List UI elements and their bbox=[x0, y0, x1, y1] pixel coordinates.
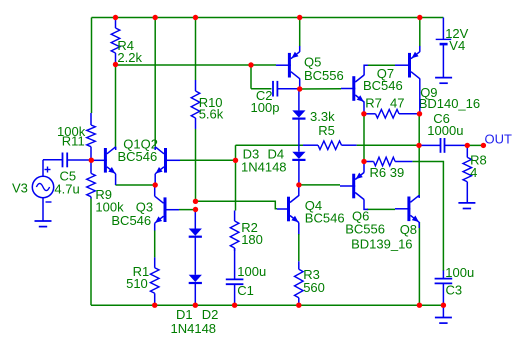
junction rail Q5 emitter bbox=[297, 15, 302, 20]
node OUT port bbox=[481, 143, 486, 148]
svg-text:510: 510 bbox=[126, 276, 148, 291]
wire Q4 emitter to R3 bbox=[298, 234, 300, 261]
svg-text:5.6k: 5.6k bbox=[199, 107, 224, 122]
junction bias node lower bbox=[193, 207, 198, 212]
resistor R7 bbox=[364, 110, 420, 119]
wire Q4 collector pin bbox=[298, 185, 300, 196]
wire C3 top pin bbox=[442, 271, 444, 279]
wire Q7 emitter pin bbox=[363, 102, 365, 114]
svg-text:V4: V4 bbox=[449, 38, 465, 53]
wire Q2 collector pin bbox=[154, 147, 156, 150]
svg-text:BD140_16: BD140_16 bbox=[419, 96, 480, 111]
wire R4 bottom to Q5 base bbox=[116, 64, 277, 66]
diode D1 bbox=[171, 229, 219, 337]
transistor Q8 bbox=[351, 195, 419, 251]
junction rail Q9 emitter bbox=[417, 15, 422, 20]
wire left border / R11 top feed bbox=[91, 18, 93, 114]
wire bias node to Q4 base bbox=[196, 201, 278, 209]
wire rail to R10 bbox=[195, 18, 197, 81]
junction VAS output bbox=[296, 182, 301, 187]
wire Q8 emitter to ground rail bbox=[418, 222, 420, 305]
wire C3 to ground rail bbox=[442, 284, 444, 318]
wire Q5 collector pin bbox=[299, 79, 301, 90]
svg-text:BC556: BC556 bbox=[345, 222, 385, 237]
wire Q8 collector pin bbox=[418, 195, 420, 198]
wire R4 bottom to Q1 collector bbox=[115, 65, 117, 148]
svg-text:100u: 100u bbox=[445, 265, 474, 280]
resistor R6 bbox=[364, 157, 412, 180]
junction rail C3 bbox=[441, 303, 446, 308]
wire Q4 emitter pin bbox=[298, 223, 300, 236]
junction C6 R8 bbox=[465, 143, 470, 148]
wire D1-D2 link bbox=[194, 237, 196, 274]
wire Q3 collector pin bbox=[154, 185, 156, 196]
diode D2 bbox=[189, 275, 202, 283]
wire rail to Q2 collector bbox=[154, 18, 156, 147]
wire Q1 emitter to Q2 emitter bbox=[116, 184, 156, 186]
wire Q7 collector pin bbox=[364, 65, 368, 75]
wire V3 to C5 bbox=[43, 159, 63, 161]
transistor Q4 bbox=[277, 196, 345, 226]
junction rail R4 bbox=[113, 15, 118, 20]
svg-text:Q8: Q8 bbox=[400, 222, 417, 237]
wire C6 to OUT port bbox=[467, 144, 483, 146]
wire Q3 emitter pin bbox=[154, 223, 156, 230]
wire C6 to R8 bbox=[445, 144, 468, 146]
wire feedback node up bbox=[235, 145, 237, 160]
resistor R10 bbox=[191, 80, 224, 129]
resistor R1 bbox=[126, 257, 159, 305]
capacitor C1 bbox=[226, 264, 266, 298]
svg-text:BC546: BC546 bbox=[118, 149, 158, 164]
wire C1 to ground rail bbox=[234, 284, 236, 305]
wire Q8 emitter pin bbox=[418, 222, 420, 228]
wire feedback node down to R2 bbox=[235, 160, 237, 210]
wire rail to Q5 emitter bbox=[299, 18, 301, 47]
wire Q9 collector pin bbox=[419, 79, 421, 114]
capacitor C5 bbox=[54, 153, 79, 197]
junction input node bbox=[89, 158, 94, 163]
junction rail Q8 emitter bbox=[417, 303, 422, 308]
wire D3 to D4 bbox=[298, 119, 300, 152]
transistor Q7 bbox=[341, 66, 404, 111]
wire Q2 emitter pin bbox=[154, 174, 156, 185]
svg-text:3.3k: 3.3k bbox=[310, 109, 335, 124]
svg-text:180: 180 bbox=[241, 232, 263, 247]
junction bias node upper bbox=[193, 199, 198, 204]
wire Q7 collector to Q9 base bbox=[367, 64, 395, 66]
svg-text:39: 39 bbox=[390, 165, 404, 180]
svg-text:R11: R11 bbox=[62, 134, 85, 149]
wire Q3 base bbox=[179, 209, 196, 211]
wire Q5 emitter pin bbox=[299, 46, 301, 52]
wire Q1 collector pin bbox=[115, 147, 117, 150]
wire rail to Q9 emitter bbox=[419, 18, 421, 47]
svg-text:100p: 100p bbox=[251, 100, 280, 115]
svg-text:C3: C3 bbox=[446, 283, 463, 298]
wire C5 to input node bbox=[67, 159, 91, 161]
svg-text:D1: D1 bbox=[176, 307, 193, 322]
wire R7 left to R6 left bbox=[363, 114, 365, 162]
wire D4 to VAS node bbox=[298, 160, 300, 185]
svg-text:BC546: BC546 bbox=[111, 213, 151, 228]
junction Q5 collector / C2 bbox=[297, 86, 302, 91]
ground of C3 bbox=[435, 318, 452, 324]
wire D1 anode bbox=[194, 210, 196, 229]
transistor Q1 bbox=[91, 137, 158, 174]
junction OUT node bbox=[416, 143, 421, 148]
junction rail R3 bbox=[296, 303, 301, 308]
resistor R9 bbox=[87, 160, 124, 214]
capacitor C6 bbox=[427, 111, 463, 153]
wire OUT node to Q8 collector bbox=[418, 145, 420, 196]
wire C2 right bbox=[277, 88, 299, 90]
svg-text:BD139_16: BD139_16 bbox=[351, 237, 412, 252]
svg-text:2.2k: 2.2k bbox=[117, 50, 142, 65]
ground of R8 bbox=[458, 203, 475, 209]
wire R9 bottom to ground rail bbox=[90, 199, 92, 306]
wire Q2 base to feedback node bbox=[180, 159, 236, 161]
voltage source V3 bbox=[12, 160, 54, 221]
transistor Q2 bbox=[155, 147, 180, 174]
svg-text:560: 560 bbox=[303, 280, 325, 295]
resistor R5 bbox=[303, 109, 357, 150]
svg-text:BC546: BC546 bbox=[363, 78, 403, 93]
wire Q6 collector pin bbox=[364, 199, 368, 209]
transistor Q5 bbox=[276, 52, 344, 83]
svg-text:C1: C1 bbox=[237, 283, 254, 298]
junction R7 right bbox=[417, 111, 422, 116]
wire +12V top rail bbox=[92, 17, 444, 19]
svg-text:100u: 100u bbox=[237, 264, 266, 279]
svg-text:4: 4 bbox=[470, 165, 477, 180]
resistor R2 bbox=[230, 211, 263, 252]
svg-text:R5: R5 bbox=[318, 123, 335, 138]
junction R6 left bbox=[361, 159, 366, 164]
wire R5 right to OUT node bbox=[357, 144, 419, 146]
wire Q9 emitter pin bbox=[419, 46, 421, 52]
wire Q5 collector to Q7 base bbox=[300, 88, 341, 90]
ground of V3 bbox=[35, 221, 52, 227]
junction Q5 base / C2 bbox=[248, 62, 253, 67]
wire R7 right to OUT node bbox=[418, 114, 420, 146]
resistor R8 bbox=[463, 145, 487, 203]
junction rail D2 bbox=[193, 303, 198, 308]
wire Q6 emitter pin bbox=[363, 162, 365, 173]
junction rail R10 bbox=[193, 15, 198, 20]
junction R4 bottom bbox=[113, 62, 118, 67]
svg-text:1000u: 1000u bbox=[427, 123, 463, 138]
wire Q1 emitter pin bbox=[115, 174, 117, 185]
wire Q6 collector to Q8 base bbox=[367, 208, 395, 210]
battery V4 bbox=[436, 18, 469, 78]
wire C2 left bbox=[251, 88, 272, 90]
wire D2 cathode bbox=[194, 284, 196, 306]
junction LTP emitters bbox=[153, 182, 158, 187]
diode D3 bbox=[241, 110, 306, 174]
wire Q5 base junction down bbox=[250, 65, 252, 89]
wire feedback node to R5 bbox=[236, 144, 304, 146]
svg-text:OUT: OUT bbox=[485, 132, 513, 147]
junction rail Q2 collector bbox=[153, 15, 158, 20]
wire Q5 collector to D3 bbox=[298, 89, 300, 110]
transistor Q3 bbox=[111, 196, 179, 228]
junction Q2 base feedback node bbox=[233, 158, 238, 163]
svg-text:1N4148: 1N4148 bbox=[171, 321, 217, 336]
resistor R3 bbox=[295, 261, 325, 305]
resistor R11 bbox=[57, 113, 95, 160]
junction rail C1 bbox=[232, 303, 237, 308]
capacitor C3 bbox=[435, 265, 475, 298]
transistor Q6 bbox=[340, 173, 385, 237]
diode D4 bbox=[292, 152, 305, 160]
wire R6 right to C3 column bbox=[412, 162, 443, 272]
wire OUT node to C6 bbox=[419, 144, 441, 146]
svg-text:BC546: BC546 bbox=[305, 211, 345, 226]
svg-text:R6: R6 bbox=[370, 165, 387, 180]
wire R10 bottom to bias node bbox=[195, 129, 197, 201]
resistor R4 bbox=[111, 18, 142, 66]
svg-text:D2: D2 bbox=[202, 307, 219, 322]
svg-text:1N4148: 1N4148 bbox=[241, 160, 287, 175]
svg-text:BC556: BC556 bbox=[304, 68, 344, 83]
wire VAS out to Q6 base bbox=[299, 184, 340, 186]
junction rail R1 bbox=[152, 303, 157, 308]
svg-text:R7: R7 bbox=[365, 96, 382, 111]
wire R2 to C1 bbox=[234, 248, 236, 279]
svg-text:4.7u: 4.7u bbox=[54, 182, 79, 197]
capacitor C2 bbox=[251, 81, 280, 115]
svg-text:V3: V3 bbox=[12, 181, 28, 196]
wire ground bottom rail bbox=[91, 304, 443, 306]
wire Q3 emitter to R1 bbox=[154, 230, 156, 257]
ground of V4 bbox=[435, 78, 452, 84]
transistor Q9 bbox=[395, 52, 480, 111]
junction R7 left bbox=[361, 111, 366, 116]
